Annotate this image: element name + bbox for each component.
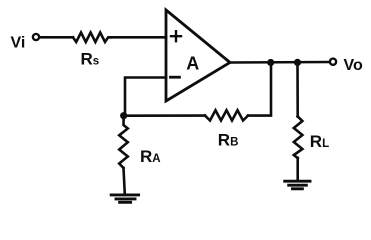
- resistor RL: [294, 117, 303, 159]
- svg-text:Vo: Vo: [344, 57, 363, 74]
- wire RL to ground: [296, 158, 299, 181]
- svg-text:Rs: Rs: [81, 50, 100, 69]
- ground right: [285, 181, 310, 189]
- resistor RA: [119, 116, 128, 168]
- op-amp minus sign: [171, 76, 180, 79]
- node output junction feedback: [267, 59, 274, 66]
- wire RA to ground: [124, 168, 125, 194]
- svg-text:RL: RL: [310, 132, 329, 151]
- ground left: [111, 195, 138, 202]
- svg-text:A: A: [186, 54, 199, 74]
- terminal Vi: [33, 34, 39, 40]
- op-amp plus sign: [171, 31, 181, 41]
- wire op-amp output to Vo: [230, 61, 330, 64]
- wire junction to RB: [124, 114, 205, 117]
- wire Vi to Rs: [40, 36, 73, 39]
- svg-text:RA: RA: [140, 147, 161, 166]
- wire output node to RL: [296, 62, 299, 116]
- node output junction load: [294, 59, 301, 66]
- terminal Vo: [330, 59, 336, 65]
- wire feedback from inverting input: [125, 78, 166, 114]
- node junction RA RB: [120, 112, 127, 119]
- resistor RB: [205, 110, 248, 120]
- op-amp U1 (A) triangle: [166, 10, 230, 101]
- wire RB to output node: [248, 63, 271, 116]
- resistor RS: [73, 33, 111, 43]
- svg-text:RB: RB: [218, 130, 239, 149]
- svg-text:Vi: Vi: [11, 35, 26, 52]
- wire Rs to op-amp noninverting input: [111, 36, 166, 39]
